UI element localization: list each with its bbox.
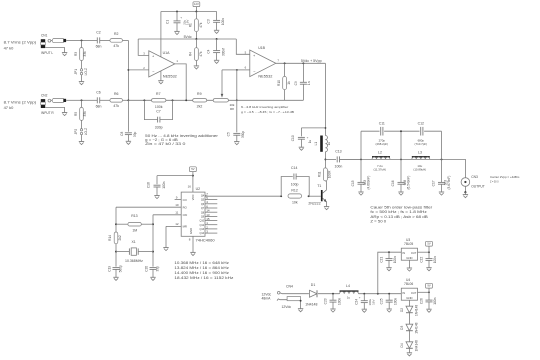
- svg-text:100n: 100n: [433, 297, 437, 304]
- svg-text:1M: 1M: [132, 229, 137, 233]
- svg-text:47k: 47k: [113, 44, 119, 48]
- svg-text:+: +: [180, 16, 182, 20]
- svg-text:10: 10: [175, 203, 179, 207]
- svg-text:+: +: [307, 135, 309, 139]
- svg-text:C16: C16: [391, 180, 395, 186]
- svg-text:D2: D2: [400, 308, 404, 312]
- svg-text:9V: 9V: [427, 284, 430, 288]
- svg-text:C5: C5: [227, 132, 231, 136]
- svg-text:68n: 68n: [96, 45, 102, 49]
- svg-text:33k: 33k: [83, 51, 87, 57]
- svg-text:16: 16: [188, 184, 192, 188]
- svg-text:47k: 47k: [113, 104, 119, 108]
- svg-text:C22: C22: [419, 257, 423, 263]
- svg-text:C3: C3: [206, 19, 210, 23]
- svg-text:R11: R11: [317, 171, 321, 177]
- svg-text:12V: 12V: [194, 2, 199, 6]
- svg-text:L1: L1: [314, 142, 318, 146]
- svg-text:100n: 100n: [393, 256, 397, 263]
- svg-text:L2: L2: [378, 151, 382, 155]
- svg-text:47k: 47k: [199, 51, 203, 57]
- svg-text:18.432 MHz / 16 = 1152 kHz: 18.432 MHz / 16 = 1152 kHz: [174, 276, 233, 280]
- svg-text:C10: C10: [291, 135, 295, 141]
- svg-text:R6: R6: [114, 92, 119, 96]
- svg-text:1N4148: 1N4148: [305, 302, 317, 306]
- svg-text:L3: L3: [418, 151, 422, 155]
- svg-text:R7: R7: [156, 92, 161, 96]
- svg-text:C11: C11: [379, 121, 385, 125]
- svg-text:100n: 100n: [337, 298, 341, 305]
- svg-text:(268.2pF): (268.2pF): [376, 142, 389, 146]
- svg-text:C7: C7: [156, 110, 161, 114]
- svg-text:IN: IN: [402, 251, 405, 255]
- svg-text:JP1: JP1: [74, 69, 78, 75]
- svg-text:NE5532: NE5532: [258, 75, 272, 79]
- svg-text:14.400 MHz / 16 = 900 kHz: 14.400 MHz / 16 = 900 kHz: [174, 271, 229, 275]
- svg-text:1u: 1u: [327, 142, 331, 146]
- svg-text:C20: C20: [144, 266, 148, 272]
- svg-text:(10.89uH): (10.89uH): [413, 168, 426, 172]
- svg-text:C17: C17: [431, 180, 435, 186]
- svg-text:100p: 100p: [291, 183, 299, 187]
- svg-text:R8: R8: [230, 107, 234, 111]
- svg-text:1u: 1u: [308, 140, 312, 144]
- svg-text:L4: L4: [346, 284, 350, 288]
- svg-text:R9: R9: [197, 92, 202, 96]
- svg-text:5V: 5V: [191, 167, 194, 171]
- svg-text:GND: GND: [406, 256, 412, 260]
- svg-text:47 k0: 47 k0: [4, 106, 14, 110]
- svg-text:g = −4.5 .. −8.45 ; G = −7...+: g = −4.5 .. −8.45 ; G = −7...+13 dB: [241, 110, 294, 114]
- svg-text:C12: C12: [418, 121, 424, 125]
- svg-text:(3.675nF): (3.675nF): [447, 176, 451, 190]
- svg-text:100n: 100n: [162, 181, 166, 188]
- svg-text:8.7 Vrms (2 Vpp): 8.7 Vrms (2 Vpp): [4, 40, 37, 44]
- svg-text:5Vdc + 5Vpp: 5Vdc + 5Vpp: [301, 59, 322, 63]
- svg-text:+: +: [359, 296, 361, 300]
- svg-text:10.368 MHz / 16 = 648 kHz: 10.368 MHz / 16 = 648 kHz: [174, 261, 229, 265]
- svg-text:78L05: 78L05: [404, 242, 413, 246]
- svg-text:48mA: 48mA: [262, 297, 272, 301]
- svg-text:U1A: U1A: [163, 51, 170, 55]
- svg-text:12: 12: [175, 222, 179, 226]
- svg-text:D3: D3: [400, 326, 404, 330]
- svg-text:CN3: CN3: [471, 175, 478, 179]
- svg-text:C6: C6: [96, 90, 101, 94]
- svg-text:C23: C23: [323, 298, 327, 304]
- svg-text:330p: 330p: [241, 131, 245, 138]
- svg-text:IN: IN: [402, 291, 405, 295]
- svg-text:C14: C14: [291, 166, 297, 170]
- svg-text:C24: C24: [355, 299, 359, 305]
- svg-text:330nf: 330nf: [221, 48, 225, 56]
- svg-text:Q13: Q13: [199, 228, 204, 231]
- svg-text:LO-Z: LO-Z: [84, 128, 88, 135]
- svg-text:JP2: JP2: [74, 129, 78, 135]
- svg-text:13.824 MHz / 16 = 864 kHz: 13.824 MHz / 16 = 864 kHz: [174, 266, 229, 270]
- svg-text:INPUT R: INPUT R: [41, 111, 54, 115]
- svg-text:330p: 330p: [155, 125, 163, 129]
- svg-text:33p: 33p: [156, 266, 160, 272]
- svg-text:R5: R5: [74, 112, 78, 116]
- svg-text:R14: R14: [108, 235, 112, 241]
- svg-text:C2: C2: [96, 30, 101, 34]
- svg-text:2k2: 2k2: [197, 105, 203, 109]
- svg-text:1N4148: 1N4148: [414, 322, 418, 333]
- svg-text:GND: GND: [406, 296, 412, 300]
- svg-text:78L06: 78L06: [404, 282, 413, 286]
- svg-text:C21: C21: [379, 257, 383, 263]
- svg-text:Q14: Q14: [199, 232, 204, 235]
- svg-text:CKI: CKI: [183, 213, 188, 217]
- svg-text:1N4148: 1N4148: [414, 305, 418, 316]
- svg-text:100n: 100n: [433, 256, 437, 263]
- svg-text:33k: 33k: [83, 111, 87, 117]
- svg-text:47k: 47k: [199, 22, 203, 28]
- svg-text:2N2222: 2N2222: [308, 201, 320, 205]
- svg-text:R1: R1: [188, 23, 192, 27]
- svg-text:Z = 50 0: Z = 50 0: [490, 179, 499, 183]
- svg-text:(4.609nF): (4.609nF): [366, 176, 370, 190]
- svg-text:(6.549nF): (6.549nF): [406, 176, 410, 190]
- svg-text:8.7 Vrms (2 Vpp): 8.7 Vrms (2 Vpp): [4, 100, 37, 104]
- svg-text:2k2: 2k2: [118, 235, 122, 240]
- svg-text:R4: R4: [188, 52, 192, 56]
- svg-text:C9: C9: [294, 81, 298, 85]
- svg-text:C1: C1: [166, 20, 170, 24]
- svg-text:74HC4060: 74HC4060: [196, 238, 215, 242]
- svg-text:(710.7pF): (710.7pF): [415, 142, 428, 146]
- svg-text:T1: T1: [317, 184, 321, 188]
- svg-text:Z = 50 0: Z = 50 0: [370, 220, 386, 224]
- svg-text:U1B: U1B: [258, 46, 265, 50]
- svg-text:1N4148: 1N4148: [414, 340, 418, 351]
- svg-text:16V: 16V: [371, 300, 375, 305]
- svg-text:C8: C8: [120, 132, 124, 136]
- svg-text:Carrier 2Vpp = +4dBm: Carrier 2Vpp = +4dBm: [490, 175, 520, 179]
- svg-text:Q10: Q10: [199, 220, 204, 223]
- svg-text:100n: 100n: [221, 18, 225, 25]
- svg-text:CN2: CN2: [41, 94, 48, 98]
- svg-text:100n: 100n: [335, 164, 343, 168]
- svg-text:C19: C19: [107, 266, 111, 272]
- svg-text:11: 11: [175, 211, 178, 215]
- svg-text:C15: C15: [351, 180, 355, 186]
- svg-text:Zin = 47 k0 / 33 0: Zin = 47 k0 / 33 0: [145, 142, 185, 146]
- svg-text:LO-Z: LO-Z: [84, 68, 88, 75]
- svg-text:X1: X1: [131, 240, 135, 244]
- svg-text:100k: 100k: [155, 105, 163, 109]
- svg-text:D4: D4: [400, 343, 404, 347]
- svg-text:C18: C18: [146, 182, 150, 188]
- svg-text:Cauer 5th order low-pass filte: Cauer 5th order low-pass filter: [370, 205, 433, 209]
- svg-text:R12: R12: [291, 188, 297, 192]
- svg-text:C4: C4: [206, 49, 210, 53]
- svg-text:10k: 10k: [292, 200, 298, 204]
- svg-text:OUTPUT: OUTPUT: [471, 184, 485, 188]
- svg-text:5Vdc: 5Vdc: [184, 35, 192, 39]
- svg-text:D1: D1: [311, 283, 316, 287]
- svg-text:OUT: OUT: [411, 291, 417, 295]
- svg-text:R3: R3: [74, 52, 78, 56]
- svg-text:100n: 100n: [394, 298, 398, 305]
- svg-text:OUT: OUT: [411, 251, 417, 255]
- svg-text:47 k0: 47 k0: [4, 46, 14, 50]
- svg-text:Q12: Q12: [199, 224, 204, 227]
- svg-text:100R: 100R: [328, 170, 332, 178]
- svg-text:68n: 68n: [96, 105, 102, 109]
- svg-text:1n: 1n: [307, 81, 311, 85]
- svg-text:10.368MHz: 10.368MHz: [125, 259, 143, 263]
- svg-text:VCC: VCC: [191, 194, 195, 200]
- svg-text:R10: R10: [277, 80, 281, 86]
- svg-text:MR: MR: [183, 225, 187, 229]
- svg-text:GND: GND: [189, 228, 193, 234]
- svg-text:12Vdc: 12Vdc: [282, 305, 292, 309]
- svg-text:C25: C25: [380, 298, 384, 304]
- svg-text:R2: R2: [114, 32, 119, 36]
- svg-text:1u: 1u: [347, 296, 351, 300]
- svg-text:CN1: CN1: [41, 34, 48, 38]
- svg-text:560p: 560p: [119, 265, 123, 272]
- svg-text:NE5532: NE5532: [163, 74, 177, 78]
- svg-text:C13: C13: [335, 149, 341, 153]
- svg-text:5V: 5V: [427, 242, 430, 246]
- svg-text:C26: C26: [419, 298, 423, 304]
- svg-text:fc = 500 kHz ; fs = 1.8 MHz: fc = 500 kHz ; fs = 1.8 MHz: [370, 210, 427, 214]
- svg-text:1k: 1k: [287, 81, 291, 85]
- svg-text:(11.37uH): (11.37uH): [373, 168, 386, 172]
- svg-text:ARp < 0.13 dB ; Asb > 68 dB: ARp < 0.13 dB ; Asb > 68 dB: [370, 215, 428, 219]
- svg-text:CN4: CN4: [286, 284, 293, 288]
- svg-text:U2: U2: [196, 187, 201, 191]
- svg-text:6...4.8 kHz inverting amplifie: 6...4.8 kHz inverting amplifier: [241, 105, 288, 109]
- svg-text:INPUT L: INPUT L: [41, 51, 53, 55]
- svg-text:R13: R13: [131, 214, 137, 218]
- svg-text:33p: 33p: [133, 132, 137, 138]
